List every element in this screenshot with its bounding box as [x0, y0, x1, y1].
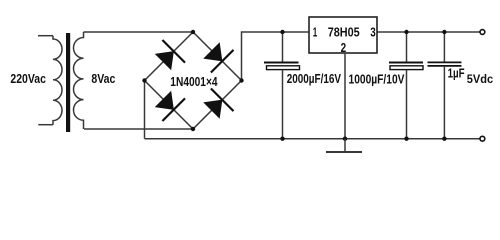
node C3 bottom junction	[442, 137, 446, 141]
terminal +5V output	[480, 30, 485, 35]
wire secondary bottom to bridge AC node	[84, 128, 193, 130]
svg-text:1N4001×4: 1N4001×4	[170, 74, 218, 89]
diode D2	[204, 43, 233, 72]
svg-text:1µF: 1µF	[448, 66, 465, 81]
diode D3	[156, 92, 185, 121]
wire bridge minus output down	[144, 81, 146, 139]
node bridge top AC junction	[191, 30, 195, 34]
capacitor C1 2000uF/16V	[264, 32, 300, 139]
node C1 top junction	[280, 30, 284, 34]
svg-text:5Vdc: 5Vdc	[467, 72, 494, 86]
node bridge right plus junction	[239, 78, 243, 82]
regulator U1 78H05 box	[309, 17, 377, 53]
wire bridge plus output up and right to regulator input	[242, 32, 310, 81]
node pin2 ground rail junction	[343, 137, 347, 141]
diode D4	[204, 89, 233, 118]
wire bottom ground rail	[145, 138, 481, 140]
wire regulator output to +5V terminal	[377, 31, 481, 33]
svg-text:2: 2	[341, 40, 347, 55]
diode D1	[156, 40, 185, 69]
ground symbol	[326, 139, 362, 152]
svg-text:3: 3	[370, 25, 376, 40]
svg-text:1000µF/10V: 1000µF/10V	[349, 71, 405, 86]
svg-text:1: 1	[313, 25, 318, 40]
transformer T1 primary top lead	[38, 35, 53, 37]
svg-text:8Vac: 8Vac	[91, 71, 115, 86]
transformer T1 core	[66, 33, 70, 132]
wire regulator pin 2 to ground rail	[344, 53, 346, 139]
capacitor C3 1uF	[428, 32, 462, 139]
node C2 bottom junction	[404, 137, 408, 141]
node C3 top junction	[442, 30, 446, 34]
svg-text:220Vac: 220Vac	[10, 71, 46, 86]
node bridge bottom AC junction	[191, 127, 195, 131]
wire secondary top to bridge AC node	[84, 31, 194, 33]
transformer T1 secondary winding	[74, 32, 84, 129]
node C1 bottom junction	[280, 137, 284, 141]
capacitor C2 1000uF/10V	[389, 32, 423, 139]
terminal 0V output	[480, 136, 485, 141]
bridge rectifier diamond outline	[145, 32, 242, 129]
transformer T1 primary winding	[53, 36, 62, 125]
transformer T1 primary bottom lead	[38, 124, 53, 126]
node bridge left minus junction	[142, 78, 146, 82]
svg-text:2000µF/16V: 2000µF/16V	[287, 71, 342, 86]
node C2 top junction	[404, 30, 408, 34]
svg-text:78H05: 78H05	[328, 25, 360, 40]
